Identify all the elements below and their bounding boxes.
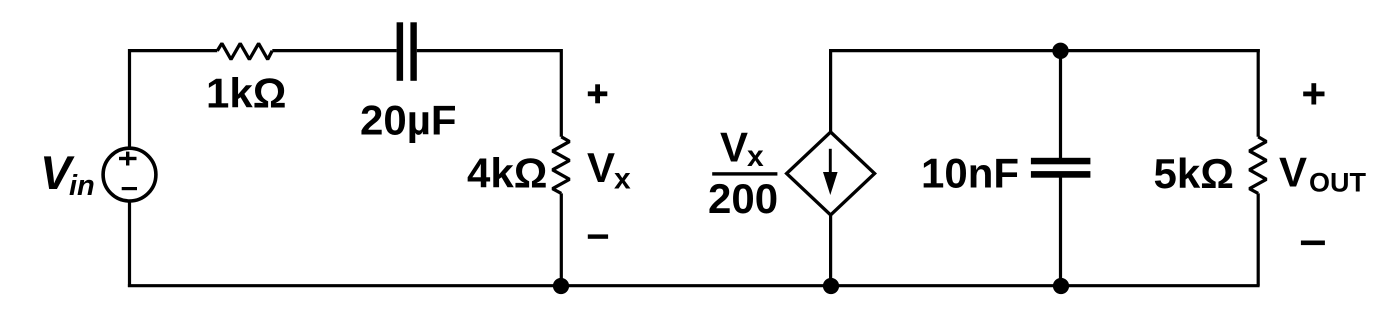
capacitor C2 10nF plates: [1031, 158, 1091, 178]
resistor R2 4k zigzag: [553, 137, 570, 194]
node junction dot top cap: [1052, 43, 1068, 59]
wire: 5k branch bottom: [1257, 193, 1260, 285]
svg-text:x: x: [747, 140, 764, 173]
wire: 10nF stem bottom: [1059, 178, 1062, 286]
dependent current source diamond: [787, 132, 875, 215]
voltage source V_in circle: [103, 148, 156, 201]
wire: bottom ground rail: [128, 284, 1260, 287]
capacitor C1 20µF plates: [397, 22, 417, 81]
svg-text:V: V: [1279, 149, 1307, 196]
wire: top rail source to R1: [130, 49, 218, 52]
plus sign inside source: [119, 152, 137, 166]
wire: right top rail: [831, 49, 1260, 52]
svg-text:20µF: 20µF: [360, 97, 457, 144]
svg-text:4kΩ: 4kΩ: [467, 150, 547, 197]
svg-text:x: x: [614, 162, 631, 195]
wire: left vertical below source: [128, 202, 131, 287]
svg-text:OUT: OUT: [1309, 168, 1367, 198]
wire: dependent source stem bottom: [829, 214, 832, 286]
svg-text:5kΩ: 5kΩ: [1154, 150, 1234, 197]
wire: dependent source stem top: [829, 49, 832, 134]
svg-text:in: in: [69, 170, 95, 202]
minus sign inside source: [122, 187, 137, 190]
svg-text:200: 200: [708, 175, 778, 222]
node junction dot bottom Vx: [553, 278, 569, 294]
node junction dot bottom cap: [1053, 278, 1069, 294]
wire: 10nF stem top: [1059, 49, 1062, 158]
resistor R3 5k zigzag: [1249, 137, 1266, 194]
wire: 4k branch bottom: [560, 193, 563, 285]
node junction dot bottom source: [823, 278, 839, 294]
plus sign Vout: [1303, 83, 1324, 104]
minus sign Vout: [1301, 241, 1325, 246]
plus sign Vx: [588, 84, 608, 103]
wire: 5k branch top: [1257, 49, 1260, 137]
wire: top rail R1 to C1: [272, 49, 396, 52]
wire: left vertical above source: [128, 49, 131, 147]
svg-text:V: V: [587, 144, 615, 191]
minus sign Vx: [588, 234, 608, 238]
wire: 4k branch top: [560, 49, 563, 137]
arrow inside diamond: [829, 149, 832, 176]
svg-text:V: V: [720, 123, 748, 170]
wire: top rail C1 to Vx node: [417, 49, 561, 52]
svg-text:1kΩ: 1kΩ: [206, 70, 286, 117]
resistor R1 1k zigzag: [217, 43, 272, 59]
svg-text:10nF: 10nF: [921, 150, 1019, 197]
